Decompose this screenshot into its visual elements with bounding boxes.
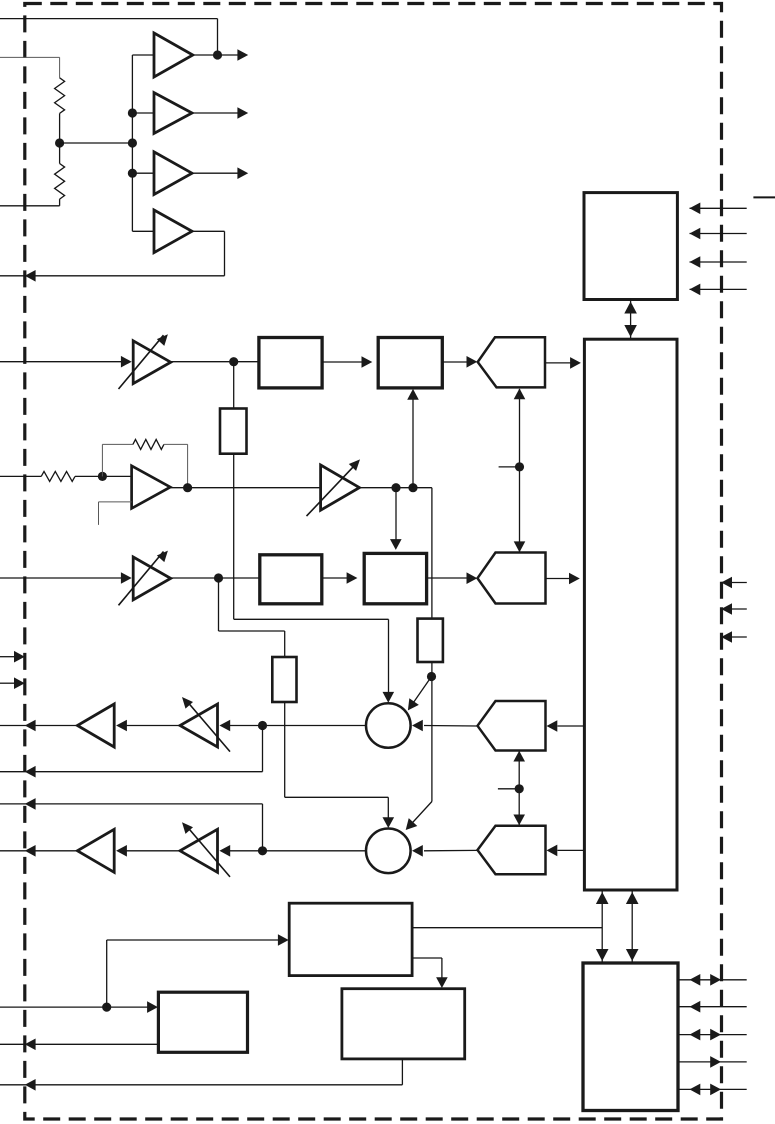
wire interface pin 1 (bidir) — [679, 974, 747, 986]
block oscillator — [158, 992, 247, 1052]
wire feedback loop — [102, 444, 132, 476]
wire line input R — [0, 577, 122, 579]
node sidetone junction — [427, 672, 436, 681]
wire sidetone diag to mixer1 — [403, 677, 431, 714]
variable gain amp out-L — [180, 704, 230, 752]
wire control input 2 — [690, 228, 747, 240]
output arrow BCLK at border — [25, 1079, 36, 1091]
wire mux1-mux2 select link — [499, 389, 520, 552]
wire aux out R — [0, 804, 263, 851]
wire non-inverting ref stub — [99, 502, 132, 525]
wire R4 to output node — [164, 444, 188, 487]
buffer A1 — [154, 33, 193, 77]
wire mux3-mux4 select link — [498, 751, 519, 825]
wire filter L1 to ADC L — [322, 356, 372, 368]
mux M1 (left record mux) — [478, 337, 545, 387]
block filter R1 — [260, 555, 322, 604]
block ADC L — [378, 338, 442, 388]
wire filter R1 to ADC R — [322, 572, 358, 584]
wire clock gen to divider — [412, 958, 442, 983]
buffer A3 — [154, 152, 192, 195]
block clock generator — [289, 903, 412, 975]
wire PGA to out buffer L — [126, 725, 180, 727]
wire mux3 to mixer1 — [412, 720, 477, 732]
bus control to DSP (bidirectional) — [624, 299, 637, 340]
wire bypass L to mixer1 — [234, 454, 389, 698]
node divider midpoint — [55, 138, 132, 147]
wire mic to ADC-R input — [390, 488, 402, 550]
arrow into out buffer R — [116, 845, 127, 857]
node out R junction — [258, 846, 267, 855]
wire ADC L to mux1 — [442, 356, 477, 368]
block ADC R — [364, 553, 426, 603]
arrow into mixer1 top — [383, 692, 395, 703]
output arrow at border (VMID out) — [25, 270, 36, 282]
wire sidetone to junction — [431, 662, 433, 677]
buffer A2 — [154, 93, 192, 134]
wire interface pin 4 — [679, 1056, 747, 1068]
variable gain amp out-R — [180, 829, 230, 877]
output arrow LHPOUT at border — [25, 766, 36, 778]
mux M4 (right playback mux) — [478, 826, 546, 875]
output arrow LOUT at border — [25, 720, 36, 732]
arrow into mixer2 top — [383, 817, 395, 828]
block bypass attenuator R — [272, 657, 296, 702]
wire left line out — [0, 725, 77, 727]
wire aux out L — [0, 726, 263, 772]
resistor R4 (feedback) — [133, 439, 164, 449]
bus DSP-interface link 1 — [596, 890, 609, 963]
gain arrow of PGA-R — [157, 547, 172, 562]
wire PGA-R to filter — [171, 573, 260, 582]
wire right line out — [0, 850, 77, 852]
variable gain amp PGA-L — [119, 335, 171, 389]
resistor R2 (lower divider) — [0, 143, 65, 206]
mux M2 (right record mux) — [478, 553, 546, 604]
resistor R3 (mic series) — [41, 471, 75, 481]
op-amp U1 (mic amp) — [132, 466, 171, 509]
wire interface pin 2 — [679, 1001, 747, 1013]
node select link junction — [515, 462, 524, 471]
wire PGA-L to filter — [171, 357, 259, 366]
wire sidetone diag to mixer2 — [401, 802, 431, 834]
wire bypass R — [219, 578, 285, 657]
wire R3 to op-amp — [75, 472, 132, 481]
gain arrow of PGA-M — [349, 456, 364, 471]
wire mode input 1 — [721, 577, 747, 589]
output buffer B-R — [77, 829, 114, 872]
wire xtal input — [0, 1003, 148, 1012]
arrow into clock generator — [278, 934, 289, 946]
wire AVDD input to divider — [0, 57, 60, 77]
wire control input 4 — [690, 284, 747, 296]
wire mode input 3 — [721, 631, 747, 643]
wire mixer2 to PGA out R — [229, 850, 366, 852]
input arrow at border (clock 1) — [0, 651, 25, 663]
block sidetone attenuator — [418, 619, 443, 662]
node out L junction — [258, 721, 267, 730]
wire clock gen to interface — [412, 927, 602, 929]
block control interface (top right) — [584, 193, 677, 300]
arrow into mux3 bottom — [513, 751, 525, 762]
arrow into mux4 top — [513, 815, 525, 826]
output arrow CLKOUT at border — [25, 1039, 36, 1051]
wire op-amp output — [170, 483, 320, 492]
gain arrow of PGA-L — [157, 331, 172, 346]
variable gain amp PGA-M (mic boost) — [307, 464, 360, 516]
input arrow at border (clock 2) — [0, 677, 25, 689]
gain arrow of out-R PGA — [178, 819, 193, 834]
mixer MX1 (left) — [366, 703, 411, 748]
block filter L1 — [259, 338, 322, 388]
arrow into divider — [436, 977, 448, 988]
node bus junction 1 — [128, 108, 137, 117]
node bus junction 2 — [128, 138, 137, 147]
wire VMID top feed — [0, 19, 218, 55]
wire mux2 to DSP — [546, 573, 580, 585]
wire bypass R to mixer2 — [285, 702, 389, 823]
output buffer B-L — [77, 704, 114, 747]
block clock divider — [342, 989, 465, 1059]
output arrow ROUT at border — [25, 845, 36, 857]
output arrow RHPOUT at border — [25, 798, 36, 810]
arrow into PGA L — [121, 356, 132, 368]
wire buffer A4 output loop — [0, 231, 225, 275]
wire PGA to out buffer R — [126, 850, 180, 852]
external pin mark (top right) — [753, 196, 775, 198]
arrow into PGA R — [121, 572, 132, 584]
node bus junction 3 — [128, 169, 137, 178]
wire xtal to clock gen — [107, 940, 279, 1007]
wire mic sidetone drop — [431, 488, 433, 619]
wire mode input 2 — [721, 603, 747, 615]
wire interface pin 3 (bidir) — [679, 1029, 747, 1041]
buffer A4 — [154, 210, 192, 253]
wire interface pin 5 (bidir) — [679, 1084, 747, 1096]
block digital filters / DSP (tall) — [584, 339, 677, 890]
mux M3 (left playback mux) — [478, 701, 546, 751]
wire ADC R to mux2 — [427, 572, 478, 584]
arrow into mux2 top — [514, 541, 526, 552]
wire mux1 to DSP — [546, 357, 581, 369]
arrow into out PGA R — [219, 845, 230, 857]
block bypass attenuator L — [220, 409, 247, 454]
wire control input 1 — [690, 203, 747, 215]
wire buffer A3 output — [192, 167, 248, 179]
resistor R1 (upper divider) — [55, 78, 65, 143]
mixer MX2 (right) — [366, 829, 411, 874]
wire mixer1 to PGA out L — [229, 725, 366, 727]
wire mic node A — [359, 483, 432, 492]
arrow into oscillator — [147, 1001, 158, 1013]
wire DAC R to mux4 — [547, 845, 585, 857]
arrow into out PGA L — [219, 720, 230, 732]
wire buffer A2 output — [192, 107, 248, 119]
wire clkout — [0, 1043, 158, 1045]
arrow into mux1 bottom — [514, 388, 526, 399]
block audio interface (bottom right) — [583, 963, 678, 1111]
wire buffer A1 output — [193, 49, 248, 61]
wire mic to ADC-L input — [407, 389, 419, 488]
wire sidetone down — [431, 677, 433, 802]
bus DSP-interface link 2 — [626, 890, 639, 963]
arrow into out buffer L — [116, 720, 127, 732]
wire DAC L to mux3 — [547, 720, 585, 732]
wire buffer input bus — [132, 55, 154, 231]
wire line input L — [0, 361, 122, 363]
wire control input 3 — [690, 256, 747, 268]
wire mux4 to mixer2 — [412, 845, 477, 857]
wire mic input — [0, 475, 41, 477]
wire bypass L — [233, 362, 235, 409]
wire bclk out — [0, 1059, 402, 1085]
variable gain amp PGA-R — [119, 552, 171, 606]
gain arrow of out-L PGA — [178, 694, 193, 709]
node playback link junction — [515, 784, 524, 793]
